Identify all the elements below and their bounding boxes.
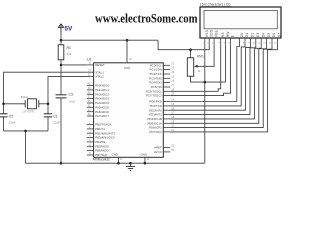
svg-text:PD4/OC1B: PD4/OC1B (147, 117, 161, 121)
power symbol 5V (58, 24, 64, 32)
U1 pin PB3/AIN1/OC0 4 (87, 134, 115, 140)
wire LCD VEE to RV1 wiper (203, 46, 214, 66)
svg-text:RV1: RV1 (197, 54, 204, 58)
resistor R1 10k (58, 45, 64, 60)
node ground symbol junction (129, 162, 132, 165)
svg-text:RS: RS (221, 32, 225, 37)
capacitor C2 22pF (0, 114, 8, 117)
capacitor C1 22pF (44, 114, 52, 117)
svg-text:PD0/RXD: PD0/RXD (149, 100, 162, 104)
svg-text:U1: U1 (87, 57, 92, 61)
U1 pin PA1/ADC1 39 (87, 86, 109, 92)
LCD pin VEE 3 (212, 30, 218, 46)
wire XTAL2 to crystal right (48, 77, 87, 114)
LCD pin D5 12 (263, 33, 271, 46)
LCD pin D0 7 (238, 33, 244, 46)
LCD pin D1 8 (243, 33, 249, 46)
svg-text:8MHz: 8MHz (21, 95, 29, 99)
wire RV1 bottom to ground bus (191, 76, 226, 82)
wire rail to VDD branch (158, 40, 209, 50)
svg-text:D6: D6 (272, 33, 276, 38)
capacitor C3 10uF (56, 95, 67, 98)
LCD pin VDD 2 (207, 29, 213, 46)
svg-text:PB6/MISO: PB6/MISO (95, 149, 109, 153)
wire reset node to C3 (60, 65, 62, 95)
U1 pin PA5/ADC5 35 (87, 103, 109, 109)
svg-text:C2: C2 (9, 114, 14, 118)
node RV1 top junction (189, 48, 192, 51)
node crystal left junction (2, 103, 5, 106)
U1 pin AVCC 30 (154, 148, 175, 154)
wire C3 to ground rail (60, 98, 62, 163)
wire PD3 to LCD D3 (170, 46, 256, 115)
U1 pin PC1/SDA 23 (149, 66, 174, 72)
wire ground rail (26, 162, 205, 164)
wire PD6 to LCD D6 (170, 46, 272, 128)
svg-text:D3: D3 (256, 33, 260, 38)
U1 pin PC5/TDI 27 (151, 83, 175, 89)
U1 pin PD7/OC2 21 (149, 128, 174, 134)
U1 pin PA6/ADC6 34 (87, 108, 109, 114)
crystal X1 8MHz (4, 99, 49, 109)
wire LCD RW to ground bus (225, 46, 227, 82)
svg-text:22pF: 22pF (53, 121, 60, 125)
svg-text:www.electroSome.com: www.electroSome.com (95, 12, 198, 26)
wire 5V to rail node (60, 32, 62, 45)
LCD pin RS 4 (219, 32, 225, 46)
svg-text:XTAL2: XTAL2 (95, 75, 104, 79)
svg-text:PB7/SCK: PB7/SCK (95, 153, 107, 157)
LCD pin D7 14 (274, 33, 282, 46)
wire PD4 to LCD D4 (170, 46, 261, 119)
svg-text:E: E (231, 35, 235, 37)
svg-text:D2: D2 (251, 33, 255, 38)
U1 pin PB0/T0/XCK 1 (87, 121, 112, 127)
svg-text:PA3/ADC3: PA3/ADC3 (95, 97, 109, 101)
svg-text:10k: 10k (67, 52, 72, 56)
svg-text:VEE: VEE (214, 30, 218, 37)
wire PD5 to LCD D5 (170, 46, 266, 123)
U1 pin XTAL1 13 (87, 68, 104, 74)
node crystal ground junction (24, 130, 27, 133)
U1 pin XTAL2 12 (87, 73, 104, 79)
U1 pin PC2/TCK 24 (150, 70, 175, 76)
U1 pin PA7/ADC7 33 (87, 112, 109, 118)
svg-text:PC4/TDO: PC4/TDO (149, 81, 162, 85)
wire PC6 to LCD RS (170, 46, 221, 91)
U1 pin PA3/ADC3 37 (87, 95, 109, 101)
svg-text:VDD: VDD (209, 29, 213, 37)
U1 pin PB4/SS 5 (87, 138, 105, 144)
svg-text:XTAL1: XTAL1 (95, 70, 104, 74)
LCD display screen (204, 10, 277, 28)
LCD pin D4 11 (258, 33, 265, 46)
node crystal right junction (47, 103, 50, 106)
svg-text:PA5/ADC5: PA5/ADC5 (95, 105, 109, 109)
svg-text:ATMEGA32: ATMEGA32 (93, 158, 111, 162)
svg-text:1k: 1k (197, 69, 201, 73)
U1 pin PC4/TDO 26 (149, 79, 174, 85)
wire PD1 to LCD D1 (170, 46, 245, 106)
LCD pin VSS 1 (203, 30, 209, 46)
U1 pin AREF 32 (154, 144, 175, 150)
wire R1 to reset node (60, 60, 62, 65)
U1 pin PD4/OC1B 18 (147, 115, 174, 121)
MCU U1 ATMEGA32 body (94, 63, 164, 158)
wire RV1 top to 5V branch (190, 50, 192, 58)
LCD pin E 6 (228, 35, 234, 46)
U1 pin PD5/OC1A 19 (147, 119, 174, 125)
wire crystal bottom bus (4, 130, 49, 132)
U1 pin PB6/MISO 7 (87, 147, 110, 153)
svg-text:5V: 5V (64, 25, 73, 32)
U1 pin RESET 9 (87, 61, 105, 67)
wire C2 down (3, 117, 5, 131)
svg-text:D5: D5 (267, 33, 271, 38)
node VCC drop junction (126, 39, 129, 42)
svg-text:D1: D1 (245, 33, 249, 38)
U1 pin PC0/SCL 22 (150, 61, 175, 67)
svg-text:D7: D7 (278, 33, 282, 38)
U1 pin PB5/MOSI 6 (87, 142, 109, 148)
U1 pin PA4/ADC4 36 (87, 99, 109, 105)
wire LCD VSS to ground rail (204, 46, 206, 163)
wire PD7 to LCD D7 (170, 46, 277, 132)
svg-text:RW: RW (226, 31, 230, 37)
potentiometer RV1 1k (187, 58, 203, 76)
U1 pin PC7/TOSC2 29 (146, 92, 175, 98)
svg-text:GND: GND (112, 153, 118, 157)
svg-text:22pF: 22pF (9, 121, 16, 125)
U1 pin PC3/TMS 25 (149, 74, 174, 80)
svg-text:R1: R1 (67, 46, 72, 50)
svg-text:PB4/SS: PB4/SS (95, 140, 105, 144)
svg-text:GND: GND (140, 153, 146, 157)
U1 pin PD6/ICP1 20 (149, 124, 175, 130)
U1 pin PB1/T1 2 (87, 125, 105, 131)
node VSS ground junction (204, 81, 207, 84)
svg-text:VCC: VCC (124, 66, 130, 70)
U1 pin PA0/ADC0 40 (87, 82, 109, 88)
node reset junction (60, 64, 63, 67)
svg-text:PD2/INT0: PD2/INT0 (149, 108, 162, 112)
LCD pin D3 10 (252, 33, 260, 46)
wire 5V rail (61, 39, 158, 41)
svg-text:C1: C1 (53, 114, 58, 118)
U1 pin PD2/INT0 16 (149, 106, 175, 112)
node supply rail junction (60, 39, 63, 42)
wire reset node to U1 RESET pin 9 (61, 64, 87, 66)
svg-text:C3: C3 (69, 93, 74, 97)
wire XTAL1 to crystal left (4, 72, 87, 114)
wire PD0 to LCD D0 (170, 46, 239, 102)
svg-text:PD7/OC2: PD7/OC2 (149, 130, 162, 134)
U1 pin PC6/TOSC1 28 (146, 87, 175, 93)
wire VCC drop to U1 pin 10 (126, 40, 128, 63)
svg-text:PB0/T0/XCK: PB0/T0/XCK (95, 123, 111, 127)
svg-text:D0: D0 (240, 33, 244, 38)
svg-text:D4: D4 (261, 33, 265, 38)
U1 pin PA2/ADC2 38 (87, 90, 109, 96)
svg-text:PB2/AIN0/INT2: PB2/AIN0/INT2 (95, 131, 115, 135)
svg-text:AVCC: AVCC (154, 150, 162, 154)
svg-text:VSS: VSS (205, 30, 209, 37)
wire PC7 to LCD E (170, 46, 230, 96)
U1 pin GND 31 (144, 157, 146, 163)
svg-text:RESET: RESET (95, 63, 105, 67)
svg-text:PC7/TOSC2: PC7/TOSC2 (146, 94, 162, 98)
U1 pin PB2/AIN0/INT2 3 (87, 129, 115, 135)
wire C1 down (47, 117, 49, 131)
U1 pin GND 11 (118, 157, 120, 163)
U1 pin PD0/RXD 14 (149, 98, 174, 104)
svg-text:16x2 Characters LCD: 16x2 Characters LCD (200, 2, 231, 6)
node C3 ground junction (60, 162, 63, 165)
svg-text:CRYSTAL: CRYSTAL (23, 110, 36, 114)
U1 pin PB7/SCK 8 (87, 151, 108, 157)
svg-text:10uF: 10uF (69, 100, 76, 104)
wire PD2 to LCD D2 (170, 46, 250, 110)
LCD pin D6 13 (269, 33, 277, 46)
LCD pin D2 9 (248, 33, 254, 46)
LCD pin RW 5 (224, 31, 230, 46)
svg-text:PA1/ADC1: PA1/ADC1 (95, 88, 109, 92)
svg-text:PA7/ADC7: PA7/ADC7 (95, 114, 109, 118)
svg-text:PC1/SDA: PC1/SDA (149, 68, 161, 72)
wire crystal bus to ground rail (25, 131, 27, 163)
U1 pin PD1/TXD 15 (150, 102, 175, 108)
U1 pin PD3/INT1 17 (149, 111, 175, 117)
ground symbol (126, 163, 135, 170)
